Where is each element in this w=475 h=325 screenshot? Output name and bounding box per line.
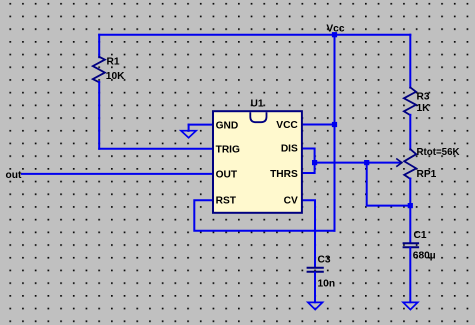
svg-text:10n: 10n <box>318 278 336 289</box>
wire Vcc vertical column <box>334 35 336 231</box>
svg-text:VCC: VCC <box>276 120 298 131</box>
wire R1 lower lead to TRIG row <box>98 82 100 149</box>
svg-text:U1: U1 <box>251 98 264 109</box>
ground triangle at GND <box>181 131 196 138</box>
wire top rail Vcc <box>99 34 410 36</box>
wire pot bottom to C1 <box>409 179 411 243</box>
wire DIS pin <box>302 149 315 163</box>
svg-text:R3: R3 <box>417 91 430 102</box>
svg-text:1K: 1K <box>417 103 431 114</box>
svg-text:10K: 10K <box>106 71 125 82</box>
ground stub at GND <box>188 125 190 131</box>
svg-text:OUT: OUT <box>216 169 238 180</box>
wire R1 upper lead <box>98 35 100 58</box>
svg-text:680µ: 680µ <box>413 251 436 262</box>
op-amp U1 body (555 timer box) <box>213 111 302 213</box>
wire wiper drop to pot bottom <box>367 163 411 206</box>
junction node DIS/THRS <box>312 160 317 165</box>
svg-text:GND: GND <box>216 120 239 131</box>
capacitor C3 <box>308 268 323 272</box>
wire C3 lower lead <box>314 273 316 303</box>
wire C1 lower lead <box>409 248 411 302</box>
wire THRS pin <box>302 163 315 173</box>
svg-text:THRS: THRS <box>270 169 298 180</box>
svg-text:C1: C1 <box>414 230 427 241</box>
svg-text:RP1: RP1 <box>417 169 437 180</box>
svg-text:Rtot=56K: Rtot=56K <box>417 147 460 158</box>
svg-text:out: out <box>6 170 22 181</box>
wire TRIG <box>99 148 214 150</box>
junction node Vcc top <box>332 32 337 37</box>
svg-text:Vcc: Vcc <box>326 24 344 35</box>
svg-text:DIS: DIS <box>281 144 298 155</box>
svg-text:R1: R1 <box>107 57 120 68</box>
arrowhead of RP1 wiper <box>397 159 402 166</box>
junction node VCC pin <box>332 122 337 127</box>
resistor R3 <box>404 87 416 115</box>
potentiometer RP1 <box>404 149 416 179</box>
wire R3 to RP1 <box>409 115 411 150</box>
capacitor C1 <box>404 243 419 247</box>
ground triangle at C1 <box>403 302 418 309</box>
wire CV pin down to C3 <box>302 200 315 267</box>
svg-text:TRIG: TRIG <box>216 145 240 156</box>
svg-text:C3: C3 <box>318 254 331 265</box>
wire RST loop to Vcc column <box>194 200 334 231</box>
svg-text:CV: CV <box>284 196 298 207</box>
wire out to OUT pin <box>22 173 214 175</box>
ground triangle at C3 <box>308 302 323 309</box>
notch of U1 <box>250 112 266 122</box>
svg-text:RST: RST <box>216 195 237 206</box>
wire right column upper <box>409 35 411 88</box>
wire wiper horizontal <box>315 162 400 164</box>
junction node pot bottom / C1 <box>408 203 413 208</box>
wire VCC pin <box>302 124 335 126</box>
wire GND pin <box>189 124 214 126</box>
junction node wiper <box>364 160 369 165</box>
resistor R1 <box>93 57 105 83</box>
